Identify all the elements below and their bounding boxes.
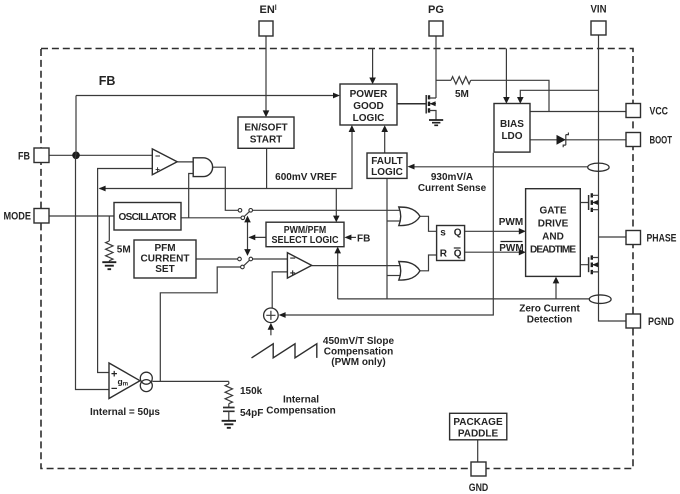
svg-text:MODE: MODE <box>4 211 32 223</box>
wire VCC line <box>530 111 626 113</box>
current sense oval (930mV/A) <box>588 163 609 171</box>
svg-text:5M: 5M <box>117 245 131 256</box>
switch S1a contact <box>238 209 242 213</box>
wire FB pin to comparator <box>49 154 152 156</box>
ground (compensation) <box>222 421 236 428</box>
wire switch2 output to comparator <box>253 258 288 260</box>
resistor 5M (MODE pulldown) <box>106 241 113 261</box>
wire BOOT line <box>530 139 626 141</box>
svg-text:FAULT: FAULT <box>371 156 402 167</box>
diode D1 bootstrap <box>557 135 566 145</box>
wire power good gate lead <box>397 103 426 105</box>
pin FB <box>18 148 49 163</box>
wire comparator out to AND <box>177 161 193 163</box>
block EN/SOFT START <box>238 117 294 148</box>
sawtooth slope comp waveform <box>252 344 317 358</box>
wire select control vertical double arrow <box>247 220 249 253</box>
wire select control horizontal <box>250 236 267 238</box>
wire AND lower input from oscillator line <box>189 174 194 218</box>
wire OR1 to latch S <box>420 216 437 231</box>
wire compensation feedback to switch2 <box>160 267 240 381</box>
wire current sense down to summing <box>285 153 493 315</box>
wire oscillator output <box>181 217 241 219</box>
switch S1c contact <box>241 216 245 220</box>
ground (PG FET) <box>429 120 443 125</box>
svg-text:SET: SET <box>155 264 174 275</box>
wire comparator2 output to OR2 <box>312 265 401 267</box>
wire OR1 lower stub <box>387 220 401 222</box>
wire ZCD up to select logic bottom <box>337 252 339 299</box>
svg-text:LOGIC: LOGIC <box>371 167 403 178</box>
svg-text:R: R <box>440 249 448 260</box>
svg-text:PHASE: PHASE <box>647 233 677 245</box>
svg-text:DRIVE: DRIVE <box>538 219 569 230</box>
svg-text:PACKAGE: PACKAGE <box>453 417 503 428</box>
op-amp gm error amplifier <box>109 363 152 399</box>
wire EN soft start drop to VREF line <box>266 148 268 188</box>
svg-text:−: − <box>111 383 117 395</box>
pin GND <box>469 462 489 494</box>
wire PWM to gate drive <box>465 230 520 232</box>
wire FB down to gm minus <box>76 155 110 389</box>
wire FB top run to power good <box>76 95 334 97</box>
block GATE DRIVE AND DEADTIME <box>526 189 581 277</box>
block POWER GOOD LOGIC <box>340 84 397 125</box>
svg-text:PWM: PWM <box>499 243 523 254</box>
resistor 5M (PG pullup) <box>451 77 471 84</box>
svg-text:FB: FB <box>99 74 116 88</box>
switch S1b contact <box>249 209 253 213</box>
svg-text:+: + <box>290 268 296 279</box>
switch S1 lever <box>244 212 249 217</box>
OR gate 2 (reset) <box>399 262 420 281</box>
wire to 150k <box>228 381 230 384</box>
pin PGND <box>626 314 674 328</box>
wire ZCD up to gate drive <box>555 282 557 299</box>
svg-text:VCC: VCC <box>650 106 669 118</box>
IC boundary dashed border <box>41 49 633 469</box>
summing junction <box>264 308 279 323</box>
switch S2 lever <box>244 260 250 265</box>
wire 5M to VCC line <box>471 80 549 111</box>
switch S2a contact <box>238 257 242 261</box>
ground (MODE 5M) <box>102 262 116 269</box>
pin MODE <box>4 209 50 224</box>
pin PG <box>428 4 444 36</box>
svg-text:−: − <box>155 151 160 161</box>
svg-text:PADDLE: PADDLE <box>458 429 499 440</box>
block FAULT LOGIC <box>367 153 407 178</box>
svg-text:PG: PG <box>428 4 444 16</box>
switch S2c contact <box>241 265 245 269</box>
svg-text:+: + <box>111 368 117 380</box>
pin VIN <box>591 4 607 36</box>
transistor Q1 PG open-drain FET <box>397 95 443 125</box>
svg-text:POWER: POWER <box>350 89 389 100</box>
svg-text:Compensation: Compensation <box>324 347 393 358</box>
svg-text:VIN: VIN <box>591 4 607 16</box>
wire OR2 lower stub <box>387 275 401 277</box>
svg-text:150k: 150k <box>240 386 263 397</box>
svg-text:Internal = 50µs: Internal = 50µs <box>90 407 160 418</box>
svg-text:54pF: 54pF <box>240 408 263 419</box>
wire switch1 output to OR1 <box>252 209 401 211</box>
latch U1 SR <box>437 226 465 261</box>
resistor 150k <box>225 384 232 404</box>
wire comparator plus from summing <box>272 272 287 308</box>
svg-text:GOOD: GOOD <box>353 101 384 112</box>
transistor Q2 high-side FET <box>589 193 599 212</box>
svg-text:930mV/A: 930mV/A <box>431 172 473 183</box>
pin EN <box>259 4 277 36</box>
svg-text:600mV VREF: 600mV VREF <box>275 172 337 183</box>
svg-text:−: − <box>290 254 296 265</box>
svg-text:ENl: ENl <box>260 4 277 16</box>
wire package paddle to GND <box>477 440 479 462</box>
wire slope comp arrow into summing <box>270 328 272 336</box>
wire VIN vertical rail <box>599 35 627 321</box>
svg-text:Compensation: Compensation <box>266 406 335 417</box>
wire VREF vertical to comparator plus and gm plus <box>98 169 153 373</box>
capacitor 54pF <box>223 408 235 412</box>
wire PFM current set output <box>196 258 238 260</box>
wire PHASE stub <box>599 236 627 238</box>
svg-text:DEADTIME: DEADTIME <box>530 245 576 256</box>
label PWM bar <box>499 242 523 255</box>
svg-text:LDO: LDO <box>501 131 522 142</box>
wire border to BIAS LDO <box>505 49 507 99</box>
wire EN pin down <box>265 36 267 112</box>
pin VCC <box>626 104 668 118</box>
svg-text:BOOT: BOOT <box>650 135 673 147</box>
current sense oval (zero current) <box>589 295 611 304</box>
comparator PWM <box>287 253 311 280</box>
svg-text:s: s <box>440 228 446 239</box>
wire fault logic down <box>386 178 388 299</box>
wire gate leads of power FETs <box>580 203 588 265</box>
block PACKAGE PADDLE <box>450 413 507 440</box>
svg-text:Q: Q <box>454 249 462 260</box>
wire fault to power good <box>384 130 386 153</box>
wire PWMbar to gate drive <box>465 251 520 253</box>
wire FB up <box>75 96 77 156</box>
wire MODE 5M down <box>108 216 110 241</box>
wire PG pin down to FET <box>435 36 437 98</box>
svg-text:Detection: Detection <box>527 315 573 326</box>
svg-text:PGND: PGND <box>648 316 674 328</box>
OR gate 1 (set) <box>399 207 420 226</box>
pin BOOT <box>626 133 672 147</box>
svg-text:Zero Current: Zero Current <box>519 304 580 315</box>
block PFM CURRENT SET <box>134 240 196 278</box>
svg-text:PWM: PWM <box>499 217 523 228</box>
block BIAS LDO <box>494 104 530 153</box>
wire FB arrow into select logic <box>350 236 356 238</box>
transistor Q3 low-side FET <box>589 255 599 274</box>
svg-text:OSCILLATOR: OSCILLATOR <box>119 212 178 223</box>
node FB junction dot <box>72 152 80 160</box>
svg-text:450mV/T Slope: 450mV/T Slope <box>323 336 395 347</box>
wire border to power good top <box>372 49 374 80</box>
svg-text:EN/SOFT: EN/SOFT <box>244 123 287 134</box>
op-amp comparator (error) <box>152 149 177 175</box>
block PWM/PFM SELECT LOGIC <box>266 222 344 247</box>
wire OR2 to latch R <box>420 255 437 271</box>
svg-text:+: + <box>155 165 160 174</box>
wire 930mV current sense to fault <box>414 166 588 168</box>
svg-text:Current Sense: Current Sense <box>418 183 487 194</box>
wire MODE line to oscillator <box>49 215 114 217</box>
svg-text:GATE: GATE <box>539 206 566 217</box>
svg-text:AND: AND <box>542 232 564 243</box>
AND gate <box>193 158 212 177</box>
pin PHASE <box>626 231 677 245</box>
wire 600mV VREF horizontal <box>100 131 353 189</box>
svg-text:FB: FB <box>357 233 370 244</box>
svg-text:FB: FB <box>18 151 30 163</box>
block OSCILLATOR <box>114 203 181 231</box>
wire zero current detection run <box>338 298 590 300</box>
wire VIN branch to BIAS LDO <box>520 90 598 99</box>
switch S2b contact <box>249 257 253 261</box>
wire 5M pullup left <box>436 79 451 81</box>
svg-text:SELECT LOGIC: SELECT LOGIC <box>272 235 339 246</box>
wire VREF drop to PWM/PFM select top <box>335 189 337 218</box>
svg-text:Internal: Internal <box>283 395 319 406</box>
svg-text:Q: Q <box>454 228 462 239</box>
svg-text:GND: GND <box>469 482 489 494</box>
wire gm output <box>152 380 229 382</box>
wire AND output to switch <box>213 167 239 210</box>
svg-text:BIAS: BIAS <box>500 119 524 130</box>
svg-text:5M: 5M <box>455 89 469 100</box>
svg-text:START: START <box>250 135 283 146</box>
svg-text:LOGIC: LOGIC <box>353 113 385 124</box>
svg-text:(PWM only): (PWM only) <box>331 357 385 368</box>
